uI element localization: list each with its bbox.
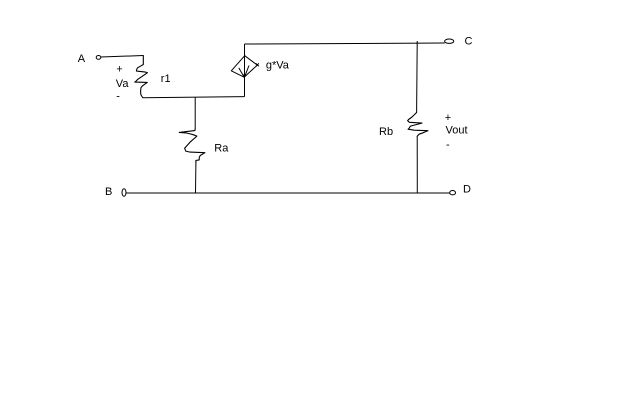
svg-text:Ra: Ra bbox=[214, 143, 229, 155]
dependent source U1 diamond bbox=[231, 56, 257, 77]
svg-text:+: + bbox=[445, 112, 451, 124]
svg-text:-: - bbox=[116, 91, 120, 103]
svg-text:D: D bbox=[463, 184, 471, 196]
svg-text:Rb: Rb bbox=[379, 126, 393, 138]
svg-text:Vout: Vout bbox=[446, 125, 468, 137]
dependent source vertical wire bbox=[244, 44, 246, 97]
wire bottom rail bbox=[126, 192, 450, 194]
wire Rb to bottom rail bbox=[416, 136, 418, 193]
svg-text:r1: r1 bbox=[161, 73, 171, 85]
dependent source corner x mark bbox=[256, 63, 259, 66]
svg-text:B: B bbox=[105, 186, 112, 198]
terminal B bbox=[122, 189, 126, 197]
wire top rail bbox=[245, 43, 445, 44]
resistor r1 bbox=[135, 56, 148, 98]
resistor Rb bbox=[408, 113, 428, 137]
wire A to r1 bbox=[101, 56, 144, 58]
svg-text:+: + bbox=[116, 64, 122, 76]
wire Ra to bottom rail bbox=[195, 163, 197, 193]
dependent source arrow barbs bbox=[239, 66, 249, 78]
terminal D bbox=[450, 191, 456, 195]
svg-text:g*Va: g*Va bbox=[266, 60, 290, 72]
terminal C bbox=[445, 39, 454, 43]
wire junction overshoot at C branch bbox=[416, 41, 418, 44]
wire r1 to dependent source bottom bbox=[143, 97, 245, 98]
resistor Ra bbox=[179, 129, 205, 163]
svg-text:-: - bbox=[446, 139, 450, 151]
terminal A bbox=[96, 56, 101, 60]
svg-text:A: A bbox=[78, 53, 86, 65]
wire junction to Ra bbox=[194, 98, 196, 129]
wire top rail to Rb bbox=[416, 43, 419, 112]
svg-text:C: C bbox=[465, 36, 473, 48]
dependent source arrowhead bbox=[243, 74, 246, 77]
svg-text:Va: Va bbox=[116, 78, 130, 90]
